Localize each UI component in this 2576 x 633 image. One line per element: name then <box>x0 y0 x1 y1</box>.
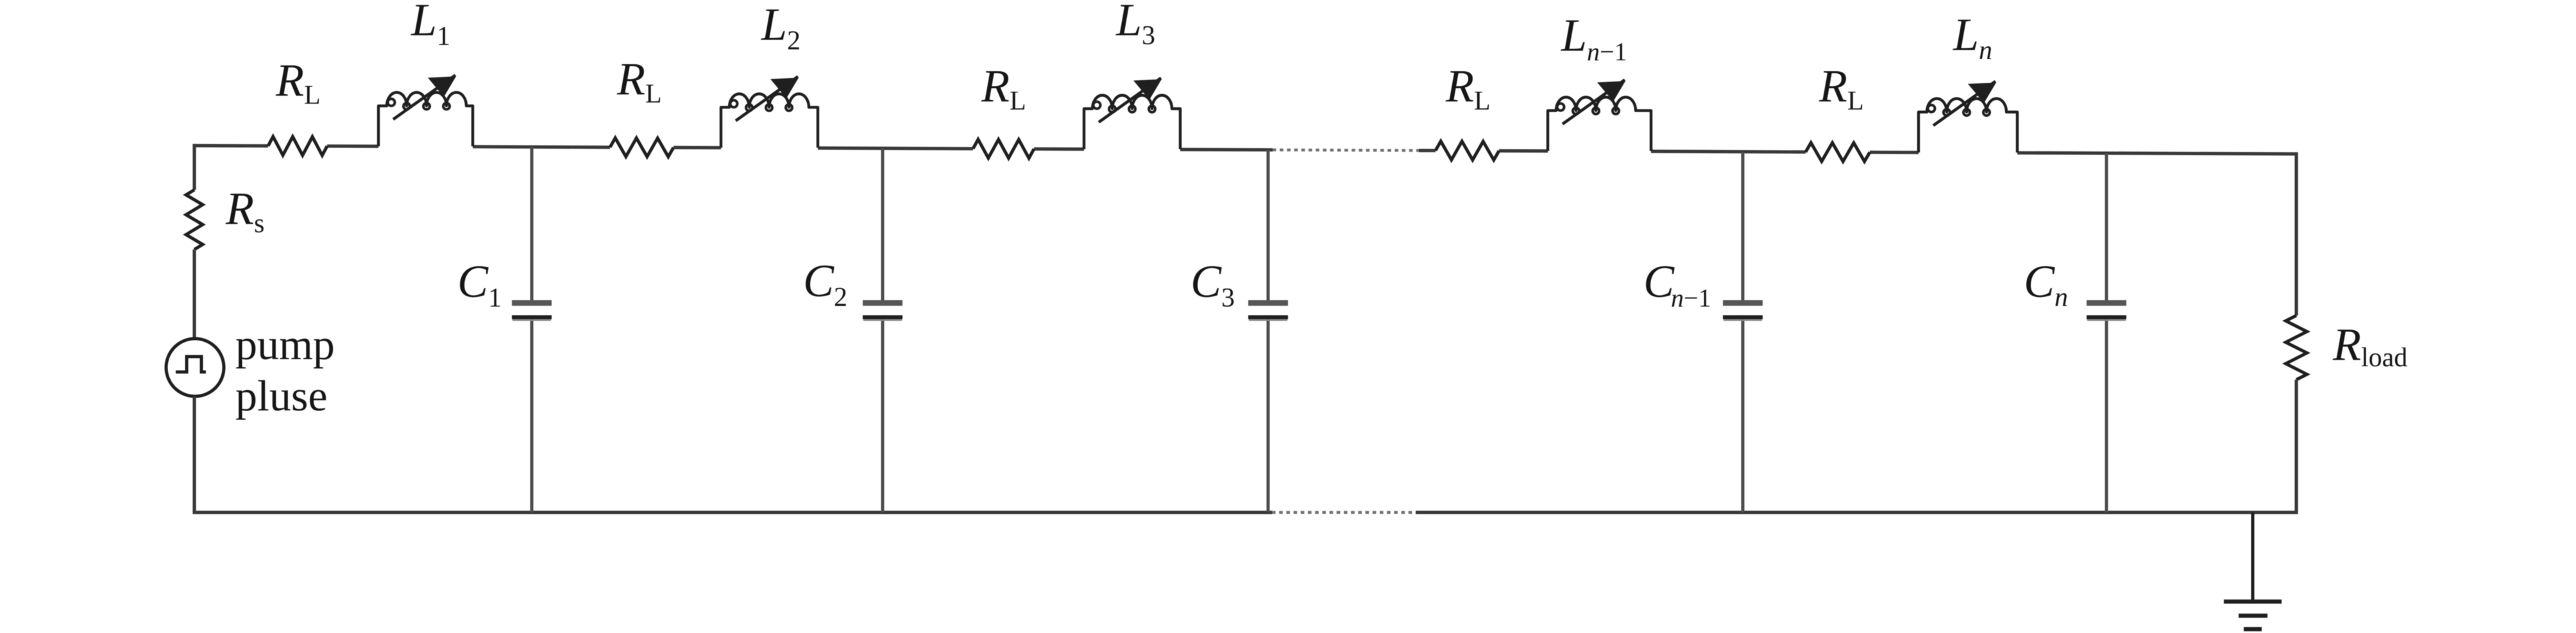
svg-text:RL: RL <box>981 60 1026 116</box>
svg-text:L1: L1 <box>411 0 450 51</box>
svg-text:Rs: Rs <box>225 183 264 239</box>
svg-text:C2: C2 <box>803 255 847 312</box>
svg-text:Rload: Rload <box>2332 319 2407 373</box>
svg-text:L3: L3 <box>1115 0 1155 51</box>
svg-text:pluse: pluse <box>235 371 328 420</box>
svg-text:RL: RL <box>1818 60 1864 116</box>
svg-text:Cn: Cn <box>2024 256 2068 312</box>
svg-text:RL: RL <box>1445 60 1491 116</box>
svg-text:pump: pump <box>235 320 335 369</box>
svg-text:RL: RL <box>616 53 662 109</box>
svg-text:L2: L2 <box>761 0 801 56</box>
svg-text:C1: C1 <box>457 256 502 313</box>
svg-text:C3: C3 <box>1191 256 1235 313</box>
svg-text:Ln: Ln <box>1953 9 1992 65</box>
svg-text:Cn−1: Cn−1 <box>1643 256 1711 312</box>
svg-text:RL: RL <box>275 55 321 110</box>
svg-text:Ln−1: Ln−1 <box>1561 10 1627 66</box>
